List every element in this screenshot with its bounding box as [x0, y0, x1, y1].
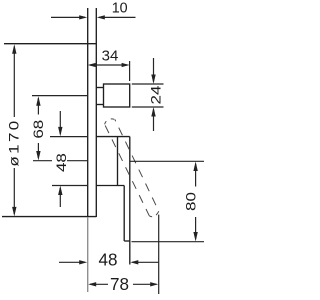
arrow dim24 bottom (points up) — [151, 107, 155, 117]
housing bottom edge left extension — [52, 185, 88, 187]
arrow dim34 left — [88, 63, 96, 67]
svg-text:68: 68 — [32, 120, 47, 139]
housing top edge left extension — [50, 136, 88, 138]
svg-text:78: 78 — [110, 274, 129, 295]
dim 80 upper segment — [195, 164, 197, 187]
arrow dim10 left (points right at wall) — [79, 15, 87, 19]
dim 24 upper arrow line — [153, 58, 155, 82]
svg-text:80: 80 — [184, 192, 199, 211]
dim 34 right extension — [129, 61, 131, 81]
dashed lever rotated position — [105, 119, 159, 217]
flange bottom edge — [96, 104, 103, 106]
dim 78 left segment — [90, 283, 108, 285]
svg-text:24: 24 — [149, 85, 164, 104]
body box — [104, 84, 130, 107]
housing top edge — [96, 136, 130, 138]
dim 48 bottom right tail — [132, 261, 158, 263]
dim 68 upper segment — [37, 98, 39, 115]
dim 68 top extension — [32, 95, 88, 97]
lever dashed right edge — [115, 119, 159, 211]
dim 24 lower arrow line — [153, 110, 155, 132]
lever blade right edge — [129, 137, 131, 265]
dim 80 top extension — [130, 160, 204, 162]
dim 48 bottom left tail — [59, 261, 85, 263]
pivot line left extension (gap for 48 text) — [33, 160, 52, 162]
plate front face line — [95, 8, 97, 217]
arrow dim78 left (points left) — [88, 282, 96, 286]
arrow dim34 right — [122, 63, 130, 67]
flange top edge — [96, 87, 103, 89]
arrow dim48left bottom (points up) — [58, 186, 62, 196]
dim 48 left lower arrow line — [59, 188, 61, 207]
dim 78 right segment — [133, 283, 157, 285]
lever dashed tip cap — [149, 211, 159, 217]
arrow dim68 top (points up) — [36, 96, 40, 106]
lever dashed top cap — [105, 119, 115, 124]
housing bottom edge — [96, 185, 124, 187]
plate bottom edge — [2, 216, 96, 218]
lever blade left edge — [123, 186, 125, 242]
svg-text:10: 10 — [112, 0, 128, 16]
arrow dim80 bottom (points down) — [193, 232, 197, 242]
svg-text:48: 48 — [55, 153, 70, 172]
arrow dim48 bottom right (points left) — [130, 260, 138, 264]
arrow dim68 bottom (points down) — [36, 151, 40, 161]
arrow dim48 bottom left (points right) — [79, 260, 87, 264]
dim phi170 lower segment — [13, 168, 15, 214]
wall face line — [87, 8, 89, 217]
dim 24 bottom extension — [132, 106, 164, 108]
lever dashed left edge — [105, 124, 150, 216]
lever blade bottom edge — [124, 240, 130, 242]
arrow dim78 right (points right) — [150, 282, 158, 286]
dim 10 left tail — [51, 16, 85, 18]
dim 80 lower segment — [195, 217, 197, 239]
arrow dim48left top (points down) — [58, 127, 62, 136]
plate top edge — [4, 43, 96, 45]
svg-text:34: 34 — [102, 49, 119, 65]
arrow phi170 top (points up) — [12, 44, 16, 54]
arrow phi170 bottom (points down) — [12, 207, 16, 217]
lever tip extension line to bottom dims — [158, 215, 160, 294]
svg-text:48: 48 — [98, 249, 117, 270]
svg-text:ø170: ø170 — [7, 118, 22, 166]
arrow dim80 top (points up) — [193, 162, 197, 172]
arrow dim10 right (points left at plate face) — [97, 15, 105, 19]
dim 10 right tail — [99, 16, 136, 18]
wall extension line to bottom dims — [87, 217, 89, 292]
dim 80 bottom extension — [132, 241, 205, 243]
dim phi170 upper segment — [13, 47, 15, 118]
housing right edge — [117, 137, 119, 186]
dim 68 lower segment — [37, 143, 39, 158]
dim 34 line — [90, 64, 127, 66]
dim 48 left upper arrow line — [59, 111, 61, 134]
dim 24 top extension — [132, 83, 164, 85]
arrow dim24 top (points down) — [151, 75, 155, 85]
